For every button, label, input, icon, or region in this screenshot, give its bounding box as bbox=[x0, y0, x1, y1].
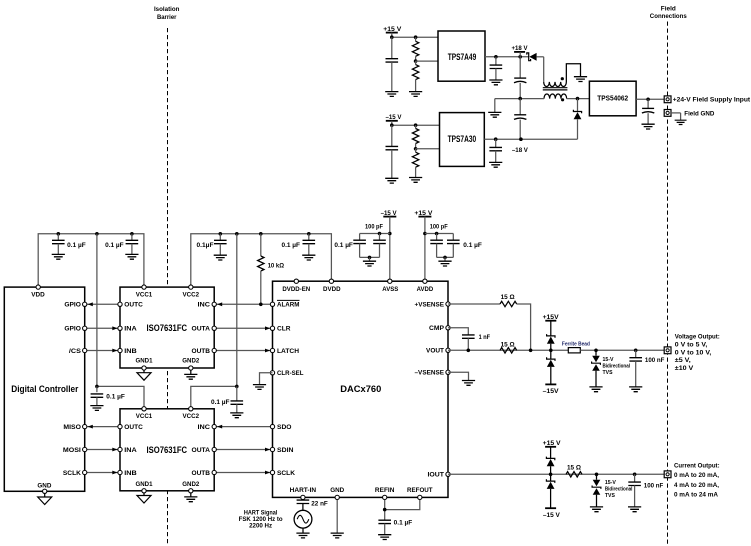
digital controller U4 bbox=[4, 287, 84, 491]
pin OUTC bbox=[118, 302, 122, 306]
svg-text:10 kΩ: 10 kΩ bbox=[268, 262, 285, 269]
wire lower VCC1 feed bbox=[97, 386, 144, 408]
ground bbox=[628, 507, 641, 512]
transformer T1 core bbox=[543, 87, 568, 89]
svg-text:–15V: –15V bbox=[543, 388, 560, 395]
ground chassis GND1 bbox=[137, 496, 151, 504]
converter U3 TPS54062 bbox=[589, 81, 636, 116]
wire VCC1 side-2 drop bbox=[96, 234, 98, 387]
svg-text:VCC1: VCC1 bbox=[136, 291, 153, 298]
svg-text:0.1 µF: 0.1 µF bbox=[463, 242, 482, 249]
wire -15V rail bbox=[392, 124, 440, 126]
wire MOSI-INA bbox=[85, 449, 120, 451]
svg-text:SCLK: SCLK bbox=[63, 470, 81, 477]
ground GND2 bbox=[184, 497, 197, 502]
pin VOUT bbox=[446, 348, 450, 352]
wire TPS54062 to field connector bbox=[636, 98, 664, 100]
svg-text:100 pF: 100 pF bbox=[430, 224, 448, 231]
wire CLR-SEL to ground bbox=[260, 373, 273, 385]
svg-text:15 Ω: 15 Ω bbox=[567, 465, 581, 472]
svg-text:0 V to 5 V,: 0 V to 5 V, bbox=[675, 341, 708, 348]
pin INB bbox=[118, 470, 122, 474]
svg-text:–VSENSE: –VSENSE bbox=[415, 370, 445, 377]
pin VCC2 bbox=[189, 285, 193, 289]
svg-text:CLR-SEL: CLR-SEL bbox=[277, 370, 304, 377]
diode D1 schottky rectifier bbox=[527, 53, 531, 61]
pin GPIO bbox=[83, 326, 87, 330]
svg-text:0 V to 10 V,: 0 V to 10 V, bbox=[675, 349, 712, 356]
wire CS-INB bbox=[85, 350, 120, 352]
ground GND2 bbox=[184, 374, 197, 379]
diode D2 zener clamp bbox=[577, 99, 579, 112]
wire divider tap to TPS7A49 bbox=[414, 59, 418, 63]
transformer T1 polarity dot bottom bbox=[561, 98, 564, 101]
regulator U1 TPS7A49 bbox=[438, 31, 485, 81]
pin VCC1 bbox=[142, 407, 146, 411]
svg-text:GND1: GND1 bbox=[136, 357, 153, 364]
pin INA bbox=[118, 326, 122, 330]
connector J1 +24-V field supply input bbox=[664, 96, 671, 103]
capacitor C2 TPS7A49 output bbox=[495, 57, 497, 65]
connector J4 current output bbox=[664, 471, 671, 478]
svg-text:TPS54062: TPS54062 bbox=[597, 94, 628, 103]
diode D7 clamp to -15V bbox=[550, 474, 552, 481]
svg-text:TVS: TVS bbox=[605, 493, 616, 499]
ground bbox=[52, 254, 65, 259]
wire VOUT line bbox=[448, 349, 568, 351]
capacitor C16 100pF AVDD bbox=[436, 234, 438, 241]
pin OUTA bbox=[212, 326, 216, 330]
svg-text:4 mA to 20 mA,: 4 mA to 20 mA, bbox=[674, 482, 719, 489]
svg-text:±5 V,: ±5 V, bbox=[675, 357, 691, 364]
svg-text:INC: INC bbox=[198, 302, 211, 309]
svg-text:100 nF: 100 nF bbox=[644, 483, 664, 490]
pin DVDD-EN bbox=[294, 279, 298, 283]
ground bbox=[489, 80, 502, 85]
field connections dashed line bbox=[667, 22, 669, 546]
regulator U2 TPS7A30 bbox=[440, 113, 485, 167]
wire -VSENSE to ground bbox=[448, 372, 469, 380]
capacitor C9 0.1uF VCC1 bbox=[131, 234, 133, 241]
svg-text:Field GND: Field GND bbox=[684, 111, 714, 118]
svg-text:Bidirectional: Bidirectional bbox=[603, 363, 631, 369]
ground bbox=[462, 381, 475, 386]
pin SDO bbox=[270, 424, 274, 428]
svg-text:INA: INA bbox=[124, 326, 137, 333]
ground bbox=[214, 255, 227, 260]
pin VCC2 bbox=[189, 407, 193, 411]
pin MOSI bbox=[83, 447, 87, 451]
svg-text:SDO: SDO bbox=[277, 424, 292, 431]
diode D3 clamp to +15V bbox=[550, 321, 552, 336]
diode D4 clamp to -15V bbox=[550, 350, 552, 359]
capacitor C4 mid to -18V (polarized) bbox=[519, 99, 521, 115]
wire transformer to TPS54062 bbox=[567, 98, 590, 100]
wire GPIO-OUTC bbox=[85, 303, 120, 305]
pin OUTB bbox=[212, 470, 216, 474]
pin LATCH bbox=[270, 348, 274, 352]
pin -VSENSE bbox=[446, 370, 450, 374]
svg-text:INB: INB bbox=[124, 348, 137, 355]
svg-text:ISO7631FC: ISO7631FC bbox=[147, 323, 188, 333]
DAC U7 DACx760 bbox=[273, 281, 449, 497]
capacitor C8 0.1uF VDD bbox=[57, 234, 59, 241]
transformer T1 top winding bbox=[544, 64, 581, 87]
svg-text:CLR: CLR bbox=[277, 326, 291, 333]
pin AVSS bbox=[388, 279, 392, 283]
svg-text:GND2: GND2 bbox=[182, 357, 199, 364]
capacitor C10 0.1uF VCC2 bbox=[219, 234, 221, 241]
svg-text:Ferrite Bead: Ferrite Bead bbox=[562, 342, 590, 348]
wire OUTB-SCLK bbox=[214, 472, 272, 474]
capacitor C15 100pF AVSS bbox=[379, 234, 381, 241]
svg-text:VCC1: VCC1 bbox=[136, 413, 153, 420]
capacitor C1 input bypass bbox=[391, 37, 393, 59]
wire INC-SDO bbox=[214, 426, 272, 428]
wire MISO-OUTC bbox=[85, 426, 120, 428]
svg-text:15-V: 15-V bbox=[605, 480, 617, 486]
connector J2 field GND bbox=[664, 110, 671, 117]
svg-text:0.1µF: 0.1µF bbox=[197, 242, 214, 249]
svg-text:–15 V: –15 V bbox=[543, 512, 561, 519]
wire TPS7A49 output bbox=[485, 56, 529, 58]
resistor R8 15ohm IOUT bbox=[566, 472, 582, 477]
svg-text:0.1 µF: 0.1 µF bbox=[394, 520, 413, 527]
ground bbox=[302, 255, 315, 260]
svg-text:0.1 µF: 0.1 µF bbox=[282, 242, 301, 249]
svg-text:SCLK: SCLK bbox=[277, 470, 295, 477]
connector J3 voltage output bbox=[664, 347, 671, 354]
node -15V clamp supply bbox=[545, 383, 556, 385]
wire OUTA-CLR bbox=[214, 327, 272, 329]
pin VCC1 bbox=[142, 285, 146, 289]
svg-text:ISO7631FC: ISO7631FC bbox=[147, 445, 188, 455]
svg-text:DACx760: DACx760 bbox=[340, 384, 381, 395]
wire OUTB-LATCH bbox=[214, 350, 272, 352]
wire AVSS drop bbox=[389, 217, 391, 282]
pin INA bbox=[118, 447, 122, 451]
wire AVDD drop bbox=[424, 217, 426, 282]
resistor R5 10k ALARM pullup bbox=[260, 234, 262, 256]
svg-text:OUTA: OUTA bbox=[192, 447, 211, 454]
svg-text:VCC2: VCC2 bbox=[183, 291, 200, 298]
svg-text:INC: INC bbox=[198, 424, 211, 431]
ground bbox=[409, 92, 422, 97]
pin OUTB bbox=[212, 348, 216, 352]
svg-text:TPS7A30: TPS7A30 bbox=[448, 134, 477, 144]
svg-text:+VSENSE: +VSENSE bbox=[415, 301, 445, 308]
svg-text:Bidirectional: Bidirectional bbox=[605, 487, 633, 493]
wire AVSS cap bottoms bbox=[360, 256, 380, 258]
wire OUTA-SDIN bbox=[214, 449, 272, 451]
ground chassis GND1 bbox=[137, 373, 151, 381]
wire mid rail to transformer bbox=[495, 98, 544, 100]
svg-text:OUTA: OUTA bbox=[192, 326, 211, 333]
ground bbox=[296, 533, 309, 538]
ground chassis bbox=[38, 497, 52, 505]
svg-text:+15V: +15V bbox=[543, 314, 560, 321]
svg-text:OUTC: OUTC bbox=[124, 424, 143, 431]
svg-text:GPIO: GPIO bbox=[64, 302, 81, 309]
wire VCC2-DVDD rail bbox=[191, 234, 332, 287]
pin INC bbox=[212, 302, 216, 306]
resistor R4 divider bottom bbox=[415, 149, 417, 152]
capacitor C3 +18V to mid (polarized) bbox=[519, 57, 521, 78]
diode D6 clamp to +15V bbox=[550, 447, 552, 459]
ground bbox=[253, 385, 266, 390]
pin SCLK bbox=[83, 470, 87, 474]
svg-text:ALARM: ALARM bbox=[277, 302, 300, 309]
svg-text:LATCH: LATCH bbox=[277, 348, 299, 355]
ground bbox=[385, 178, 398, 183]
svg-text:GND: GND bbox=[37, 482, 51, 489]
capacitor C11 0.1uF DVDD bbox=[308, 234, 310, 241]
wire REFOUT to REFIN bbox=[385, 500, 420, 510]
wire SCLK-INB bbox=[85, 472, 120, 474]
capacitor C18 1nF CMP bbox=[462, 335, 475, 338]
svg-text:1 nF: 1 nF bbox=[479, 334, 491, 341]
svg-text:GND: GND bbox=[330, 487, 344, 494]
source V1 HART FSK generator bbox=[294, 510, 312, 528]
wire lower VCC2 feed bbox=[191, 386, 237, 408]
svg-text:15 Ω: 15 Ω bbox=[501, 294, 515, 301]
svg-text:0.1 µF: 0.1 µF bbox=[67, 242, 86, 249]
svg-text:Connections: Connections bbox=[650, 13, 687, 20]
svg-text:100 nF: 100 nF bbox=[645, 357, 665, 364]
wire REFIN drop bbox=[384, 500, 386, 521]
wire VOUT after bead bbox=[580, 349, 664, 351]
capacitor C7 TPS7A30 output bbox=[495, 139, 497, 147]
svg-text:OUTB: OUTB bbox=[192, 348, 211, 355]
svg-text:MOSI: MOSI bbox=[63, 447, 81, 454]
svg-text:TVS: TVS bbox=[603, 370, 614, 376]
pin +VSENSE bbox=[446, 302, 450, 306]
wire DAC GND to ground bbox=[336, 500, 338, 533]
pin DVDD bbox=[329, 279, 333, 283]
svg-text:VDD: VDD bbox=[31, 291, 45, 298]
wire CMP branch bbox=[448, 328, 468, 335]
wire VDD-VCC1 rail bbox=[38, 234, 144, 287]
svg-text:Current Output:: Current Output: bbox=[674, 462, 720, 469]
svg-text:0 mA to 20 mA,: 0 mA to 20 mA, bbox=[674, 472, 719, 479]
node -15V clamp supply bbox=[545, 507, 556, 509]
pin CLR-SEL bbox=[270, 371, 274, 375]
wire AVDD cap tie bbox=[425, 233, 453, 235]
ground bbox=[125, 254, 138, 259]
ground field bbox=[675, 120, 687, 124]
pin MISO bbox=[83, 424, 87, 428]
transformer T1 bottom winding bbox=[544, 94, 567, 99]
svg-text:15-V: 15-V bbox=[603, 357, 615, 363]
capacitor C6 input bypass bbox=[391, 125, 393, 146]
svg-text:Isolation: Isolation bbox=[154, 6, 180, 13]
wire AVSS cap tie bbox=[360, 233, 390, 235]
svg-text:0 mA to 24 mA: 0 mA to 24 mA bbox=[674, 492, 718, 499]
resistor R3 divider top bbox=[415, 125, 417, 128]
capacitor C21 22nF HART bbox=[302, 499, 304, 501]
capacitor C22 0.1uF REF bbox=[378, 520, 391, 523]
svg-text:+15 V: +15 V bbox=[543, 440, 562, 447]
svg-text:VOUT: VOUT bbox=[426, 348, 444, 355]
pin ALARM bbox=[270, 302, 274, 306]
resistor R1 divider top bbox=[415, 37, 417, 41]
wire GPIO-INA bbox=[85, 327, 120, 329]
TVS D5 15-V bidirectional bbox=[595, 350, 597, 355]
wire INC-ALARM bbox=[214, 303, 272, 305]
svg-text:GND1: GND1 bbox=[136, 481, 153, 488]
svg-text:REFIN: REFIN bbox=[375, 487, 395, 494]
pin INB bbox=[118, 348, 122, 352]
svg-text:0.1 µF: 0.1 µF bbox=[211, 399, 230, 406]
svg-text:AVDD: AVDD bbox=[417, 286, 434, 293]
svg-text:2200 Hz: 2200 Hz bbox=[249, 523, 272, 530]
wire IOUT line bbox=[448, 473, 664, 475]
svg-text:MISO: MISO bbox=[63, 424, 81, 431]
svg-text:Voltage Output:: Voltage Output: bbox=[675, 333, 720, 340]
svg-text:DVDD: DVDD bbox=[323, 286, 341, 293]
svg-text:REFOUT: REFOUT bbox=[407, 487, 433, 494]
ground bbox=[574, 77, 587, 82]
ground bbox=[90, 406, 103, 411]
wire VCC2 side-2 drop bbox=[236, 234, 238, 387]
ground bbox=[363, 261, 376, 266]
ground mid rail bbox=[494, 99, 496, 113]
resistor R6 15ohm bbox=[500, 301, 517, 306]
capacitor C17 0.1uF AVDD bbox=[452, 234, 454, 241]
wire AVDD cap bottoms bbox=[437, 256, 454, 258]
svg-text:Barrier: Barrier bbox=[157, 14, 177, 21]
svg-text:±10 V: ±10 V bbox=[675, 365, 694, 372]
ground bbox=[438, 261, 451, 266]
svg-text:GPIO: GPIO bbox=[64, 326, 81, 333]
TVS D8 15-V bidirectional bbox=[596, 474, 598, 479]
svg-text:+24-V Field Supply Input: +24-V Field Supply Input bbox=[673, 97, 751, 104]
pin IOUT bbox=[446, 472, 450, 476]
svg-text:VCC2: VCC2 bbox=[183, 413, 200, 420]
svg-text:HART-IN: HART-IN bbox=[290, 487, 317, 494]
svg-text:0.1 µF: 0.1 µF bbox=[106, 394, 125, 401]
ground bbox=[629, 387, 642, 392]
wire +VSENSE to VOUT bbox=[517, 304, 531, 350]
pin VDD bbox=[36, 285, 40, 289]
pin SDIN bbox=[270, 447, 274, 451]
pin OUTC bbox=[118, 424, 122, 428]
svg-text:22 nF: 22 nF bbox=[311, 501, 328, 508]
capacitor C12 0.1uF lower VCC1 bbox=[96, 386, 98, 392]
svg-text:100 pF: 100 pF bbox=[365, 224, 383, 231]
svg-text:SDIN: SDIN bbox=[277, 447, 294, 454]
ground bbox=[489, 162, 502, 167]
wire TPS7A30 output -18V rail bbox=[484, 138, 577, 140]
svg-text:GND2: GND2 bbox=[182, 481, 199, 488]
svg-text:Digital Controller: Digital Controller bbox=[11, 384, 78, 394]
svg-text:OUTC: OUTC bbox=[124, 302, 143, 309]
svg-text:0.1 µF: 0.1 µF bbox=[105, 242, 124, 249]
svg-text:AVSS: AVSS bbox=[382, 286, 398, 293]
svg-text:INA: INA bbox=[124, 447, 137, 454]
isolator U6 ISO7631FC bbox=[120, 409, 214, 491]
transformer T1 polarity dot top bbox=[561, 77, 564, 80]
capacitor C19 100nF VOUT bbox=[635, 350, 637, 357]
capacitor C20 100nF IOUT bbox=[634, 474, 636, 482]
ground bbox=[385, 92, 398, 97]
capacitor C13 0.1uF lower VCC2 bbox=[236, 386, 238, 401]
ground bbox=[589, 387, 602, 392]
svg-text:OUTB: OUTB bbox=[192, 470, 211, 477]
wire +15V rail bbox=[392, 36, 438, 38]
svg-text:/CS: /CS bbox=[69, 348, 81, 355]
capacitor C5 24V bulk (polarized) bbox=[647, 99, 649, 108]
ground bbox=[230, 413, 243, 418]
resistor R2 divider bottom bbox=[415, 61, 417, 65]
wire divider tap to TPS7A30 bbox=[414, 147, 418, 151]
pin CLR bbox=[270, 326, 274, 330]
svg-text:CMP: CMP bbox=[429, 325, 444, 332]
svg-text:INB: INB bbox=[124, 470, 137, 477]
ground bbox=[409, 178, 422, 183]
wire diode to transformer primary top bbox=[537, 56, 544, 58]
pin SCLK bbox=[270, 470, 274, 474]
wire +VSENSE branch bbox=[448, 303, 500, 305]
svg-text:15 Ω: 15 Ω bbox=[501, 342, 515, 349]
svg-text:Field: Field bbox=[661, 5, 676, 12]
svg-text:TPS7A49: TPS7A49 bbox=[448, 52, 477, 62]
resistor R7 15ohm VOUT bbox=[500, 348, 517, 353]
isolator U5 ISO7631FC bbox=[120, 287, 214, 368]
svg-text:IOUT: IOUT bbox=[428, 472, 445, 479]
svg-text:–18 V: –18 V bbox=[512, 147, 529, 154]
pin INC bbox=[212, 424, 216, 428]
svg-text:DVDD-EN: DVDD-EN bbox=[282, 286, 310, 293]
wire source to ground bbox=[302, 528, 304, 533]
capacitor C14 0.1uF AVSS bbox=[359, 234, 361, 241]
ground bbox=[378, 535, 391, 540]
svg-text:0.1 µF: 0.1 µF bbox=[334, 242, 353, 249]
isolation barrier dashed line bbox=[167, 28, 169, 546]
pin AVDD bbox=[423, 279, 427, 283]
pin OUTA bbox=[212, 447, 216, 451]
ground bbox=[642, 124, 655, 129]
ground bbox=[331, 533, 344, 538]
pin GPIO bbox=[83, 302, 87, 306]
pin /CS bbox=[83, 348, 87, 352]
ground bbox=[590, 507, 603, 512]
pin CMP bbox=[446, 326, 450, 330]
